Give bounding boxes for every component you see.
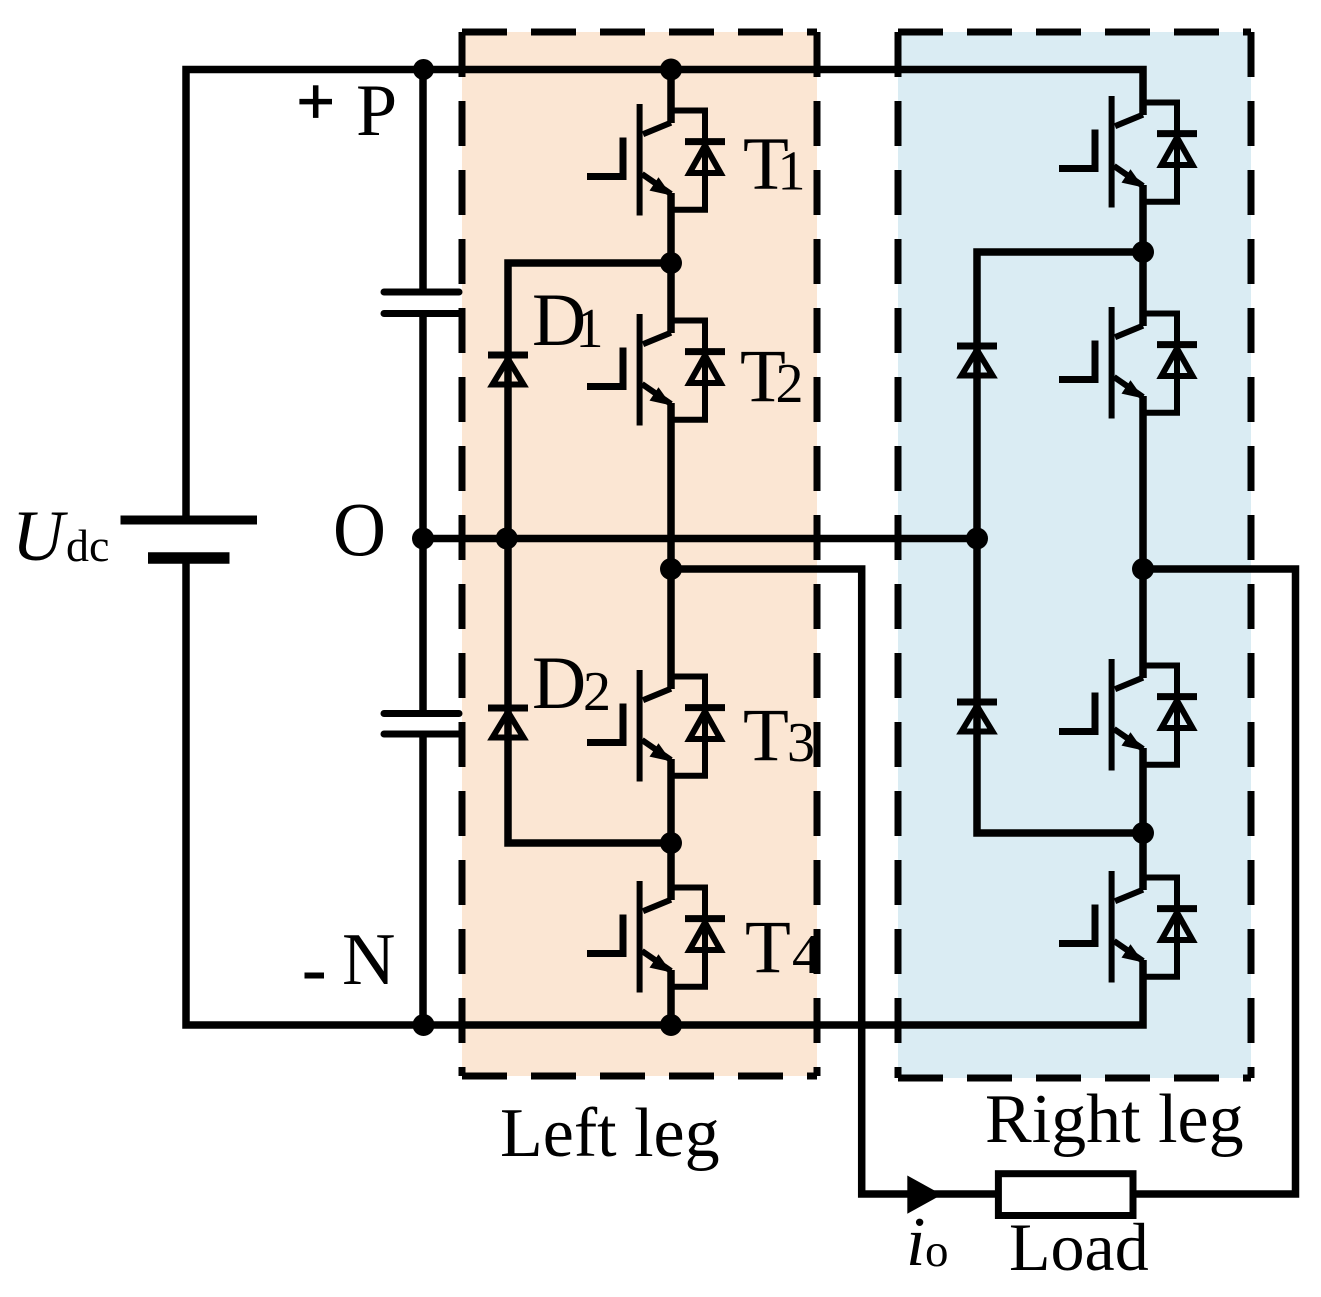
- svg-text:1: 1: [778, 141, 806, 203]
- svg-text:4: 4: [792, 924, 820, 986]
- svg-text:1: 1: [576, 298, 604, 360]
- svg-text:T: T: [743, 694, 789, 777]
- svg-text:Load: Load: [1009, 1209, 1149, 1285]
- svg-text:2: 2: [776, 353, 804, 415]
- svg-text:2: 2: [583, 661, 611, 723]
- svg-text:i: i: [906, 1204, 925, 1281]
- svg-text:3: 3: [787, 712, 815, 774]
- svg-text:Right leg: Right leg: [985, 1081, 1244, 1158]
- svg-text:N: N: [342, 919, 395, 1001]
- svg-text:D: D: [532, 642, 586, 725]
- svg-text:Left leg: Left leg: [500, 1095, 720, 1172]
- svg-text:P: P: [356, 70, 397, 152]
- svg-text:O: O: [333, 489, 386, 573]
- svg-text:dc: dc: [66, 520, 109, 571]
- svg-text:U: U: [12, 496, 68, 576]
- svg-text:T: T: [745, 906, 791, 989]
- svg-text:o: o: [925, 1225, 949, 1277]
